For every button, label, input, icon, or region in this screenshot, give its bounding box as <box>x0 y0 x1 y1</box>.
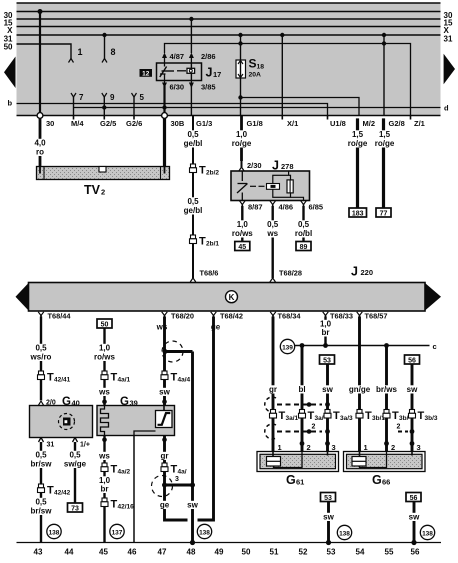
svg-text:2b/2: 2b/2 <box>206 170 219 177</box>
svg-text:ro/ws: ro/ws <box>94 353 115 362</box>
wire heater return to track 46 <box>133 436 135 543</box>
svg-text:3: 3 <box>417 443 421 452</box>
knock sensor G61 box <box>257 452 339 472</box>
svg-text:51: 51 <box>270 548 279 557</box>
svg-text:49: 49 <box>215 548 224 557</box>
connector T42/41 <box>38 371 45 380</box>
note circle 137 <box>110 524 124 538</box>
label track 45 <box>99 548 108 557</box>
wire ge riser to T68/42 <box>198 317 214 521</box>
label connector T4a/1 <box>111 372 131 384</box>
wire 0,5 ws/ro from T68/44 <box>40 317 42 372</box>
wire into G40 pin 2/0 <box>38 380 43 406</box>
label terminal 9 <box>110 93 115 102</box>
label track 47 <box>158 548 167 557</box>
shield drain wire sw vertical <box>191 352 194 543</box>
svg-text:TV: TV <box>84 183 101 197</box>
sender G40 box <box>30 406 93 438</box>
wire ws below G39 heater <box>102 436 107 464</box>
label bus 31 right <box>444 34 453 43</box>
arrow pin 2/30 <box>239 161 244 171</box>
connector T3a/3 <box>324 410 331 419</box>
svg-text:30B: 30B <box>171 119 185 128</box>
label wire ws below G39 <box>98 452 111 461</box>
label terminal G1/3 <box>196 119 212 128</box>
label connector T3b/1 <box>365 410 385 422</box>
label c <box>433 342 437 351</box>
svg-text:M/4: M/4 <box>71 119 84 128</box>
svg-text:2: 2 <box>307 443 311 452</box>
wire ge below T4a/3 with bend to T68/42 column <box>165 472 188 521</box>
wire relay feed line from 4/87 to Z/1 <box>165 44 411 116</box>
wire gr below G39 sensor <box>162 436 167 464</box>
label track 53 <box>327 548 336 557</box>
svg-text:T: T <box>392 410 399 422</box>
label wire bl <box>296 385 309 394</box>
svg-text:ro/bl: ro/bl <box>295 229 312 238</box>
connector T4a/4 <box>161 371 168 380</box>
svg-text:1/+: 1/+ <box>80 442 90 449</box>
wire 0,5 ge/bl lower <box>192 173 194 236</box>
svg-text:T: T <box>199 236 206 248</box>
svg-text:50: 50 <box>4 43 13 52</box>
svg-text:139: 139 <box>282 344 293 351</box>
svg-text:20A: 20A <box>249 72 262 79</box>
label track 48 <box>187 548 196 557</box>
svg-text:2: 2 <box>101 188 105 197</box>
shield node upper <box>163 349 193 354</box>
relay J17 coil link dash <box>177 70 186 72</box>
relay J278 inner wire to 6/85 <box>291 197 304 200</box>
label connector T2b/1 <box>199 236 219 248</box>
svg-text:61: 61 <box>296 478 304 487</box>
G39 sensor cell symbol <box>156 406 173 428</box>
label wire 0,5 ge/bl lower <box>182 197 205 215</box>
svg-text:T: T <box>171 464 178 476</box>
label fuse 8 <box>111 47 116 57</box>
label track 43 <box>34 548 43 557</box>
svg-text:138: 138 <box>49 529 60 536</box>
wire ws from T68/20 <box>163 317 166 372</box>
arrow terminal T68/34 <box>270 312 276 319</box>
fork terminal 7 <box>71 93 76 115</box>
svg-text:ro: ro <box>36 148 44 157</box>
label pin 3 G66 <box>417 443 421 452</box>
wire M/2 link from S18 wire <box>238 95 359 115</box>
G66 pin 3 inner stub <box>411 452 413 456</box>
label wire 1,0 ro/ge <box>230 130 253 148</box>
label wire gn/ge <box>348 385 371 394</box>
svg-text:52: 52 <box>299 548 308 557</box>
stub below X/1 <box>281 116 283 120</box>
svg-text:ro/ge: ro/ge <box>375 139 395 148</box>
wire gn/ge from T68/57 to T3b/1 <box>358 317 361 410</box>
arrow terminal T68/33 <box>323 312 329 319</box>
note circle 138 under 53 <box>337 525 351 539</box>
label wire 4,0 ro <box>33 139 47 157</box>
svg-text:2: 2 <box>391 443 395 452</box>
label pin 2 G61 <box>307 443 311 452</box>
svg-text:1,5: 1,5 <box>352 130 364 139</box>
arrow terminal T68/42 <box>211 312 217 319</box>
label connector T4a/4 <box>171 372 191 384</box>
fork terminal 5 <box>132 93 137 115</box>
svg-text:T68/33: T68/33 <box>330 312 353 321</box>
label wire 0,5 ro/bl <box>292 220 315 238</box>
svg-text:1,0: 1,0 <box>237 220 249 229</box>
label connector T3a/3 <box>333 410 353 422</box>
svg-text:br/sw: br/sw <box>31 507 53 516</box>
svg-text:X/1: X/1 <box>287 119 298 128</box>
svg-text:138: 138 <box>339 530 350 537</box>
label wire 0,5 ws <box>266 220 280 238</box>
svg-text:3a/1: 3a/1 <box>286 415 299 422</box>
label connector T2b/2 <box>199 165 219 177</box>
svg-text:G1/8: G1/8 <box>247 119 263 128</box>
label bus X right <box>444 26 450 35</box>
note circle 139 <box>280 339 294 353</box>
label T68/28 <box>279 269 302 278</box>
svg-text:T: T <box>199 165 206 177</box>
svg-text:17: 17 <box>213 70 221 79</box>
relay box J17 <box>157 63 202 81</box>
wire 30B to TV2 <box>163 118 166 167</box>
stub below M/4 <box>73 116 75 120</box>
arrow pin 6/85 <box>301 201 307 208</box>
label wire 1,5 ro/ge G2/8 <box>373 130 396 148</box>
lambda probe G39 box <box>97 406 175 436</box>
fuse S18 symbol <box>236 60 246 78</box>
wire 0,5 ge/bl upper from G1/3 <box>192 116 194 165</box>
label wire ws below T68/20 <box>156 323 169 332</box>
label pin 1 G66 <box>364 443 368 452</box>
label track 44 <box>65 548 74 557</box>
svg-text:T: T <box>171 372 178 384</box>
svg-text:1,0: 1,0 <box>99 344 111 353</box>
label track 50 <box>242 548 251 557</box>
connection box 56 upper <box>405 355 420 364</box>
wire sw from box 53 to track 53 <box>326 502 331 546</box>
wire gn/ge to G66 pin 1 <box>358 418 361 452</box>
connector T4a/2 <box>101 463 108 472</box>
svg-text:br: br <box>322 328 330 337</box>
connector T3a/1 <box>270 410 277 419</box>
svg-text:T: T <box>279 410 286 422</box>
shield screen circle lower <box>152 476 173 497</box>
arrow pin 8/87 <box>240 201 246 208</box>
label wire sw left <box>321 385 334 394</box>
wire 1,5 ro/ge from M/2 to ground 183 <box>356 118 359 208</box>
svg-text:M/2: M/2 <box>363 119 376 128</box>
label connector T42/42 <box>47 485 71 497</box>
svg-text:Z/1: Z/1 <box>414 119 425 128</box>
svg-text:4,0: 4,0 <box>34 139 46 148</box>
svg-text:G: G <box>286 473 296 487</box>
label wire gr <box>267 385 280 394</box>
bus bar 50 with corner down to fuse 1 <box>17 44 72 59</box>
connection box 50 <box>97 319 112 328</box>
svg-text:T: T <box>418 410 425 422</box>
svg-text:56: 56 <box>411 548 420 557</box>
connector T42/42 <box>38 484 45 493</box>
label bus 30 left <box>4 11 13 20</box>
svg-text:89: 89 <box>300 244 308 251</box>
label connector T4a/2 <box>111 464 131 476</box>
label G66 <box>372 473 390 487</box>
svg-text:ge/bl: ge/bl <box>184 206 203 215</box>
svg-text:sw/ge: sw/ge <box>64 460 87 469</box>
wire fuse 8 from bus 31 <box>102 33 106 59</box>
G39 heater return inner wire <box>134 431 156 436</box>
G61 pin 3 inner stub <box>327 452 329 456</box>
label pin 1/+ <box>80 442 90 449</box>
ground box 77 <box>376 208 391 217</box>
label S18 20A <box>249 57 265 79</box>
label wire 1,0 br <box>318 320 332 338</box>
svg-text:4/87: 4/87 <box>170 52 185 61</box>
svg-text:3: 3 <box>332 443 336 452</box>
svg-text:0,5: 0,5 <box>187 197 199 206</box>
shield screen arc upper pair a <box>265 397 276 412</box>
bus bar 31 <box>17 34 441 36</box>
connector T3a/2 <box>299 410 306 419</box>
svg-text:T68/57: T68/57 <box>365 312 388 321</box>
svg-text:1,5: 1,5 <box>379 130 391 139</box>
SECTION: top supply band <box>4 3 455 128</box>
label wire 1,0 ro/ws <box>231 220 254 238</box>
svg-text:bl: bl <box>298 385 305 394</box>
bus bar X <box>17 26 441 28</box>
sender G40 inner symbol <box>59 414 75 430</box>
label track 46 <box>128 548 137 557</box>
svg-text:50: 50 <box>101 321 109 328</box>
connection box 53 lower <box>321 493 336 502</box>
label pin 31 <box>47 442 55 449</box>
label pin 4/87 <box>170 52 185 61</box>
wire 1,0 ro/ge from G1/8 to J278 <box>240 116 243 162</box>
label wire 0,5 br/sw upper <box>30 451 53 469</box>
svg-text:G2/5: G2/5 <box>100 119 116 128</box>
label pin 6/85 <box>309 203 324 212</box>
svg-text:46: 46 <box>128 548 137 557</box>
svg-text:2/86: 2/86 <box>201 52 216 61</box>
relay J17 contact <box>160 63 174 81</box>
svg-text:c: c <box>433 342 437 351</box>
svg-text:3b/: 3b/ <box>399 415 409 422</box>
svg-text:S: S <box>249 57 257 71</box>
label wire 0,5 br/sw lower <box>30 498 53 516</box>
label T68/34 <box>278 312 302 321</box>
label pin 2/30 <box>247 161 262 170</box>
wire 1,5 ro/ge from G2/8 to ground 77 <box>382 118 385 208</box>
code box 12 <box>140 69 153 77</box>
label G40 <box>62 396 80 408</box>
wire 0,5 ws to T68/28 <box>270 206 276 282</box>
label wire sw ground right <box>408 513 421 522</box>
label wire 0,5 sw/ge <box>64 451 87 469</box>
label T68/42 <box>220 312 243 321</box>
svg-text:2: 2 <box>312 424 316 431</box>
label track 52 <box>299 548 308 557</box>
fuse tap 1 fork <box>69 59 74 63</box>
wire 0,5 br/sw lower to track 43 <box>40 493 42 543</box>
d rail <box>74 107 441 109</box>
svg-text:0,5: 0,5 <box>35 451 47 460</box>
ground box 183 <box>349 208 367 217</box>
label pin 2/0 <box>46 400 56 407</box>
svg-text:53: 53 <box>327 548 336 557</box>
arrow terminal T68/57 <box>357 312 363 319</box>
svg-text:8: 8 <box>111 47 116 57</box>
label bus 50 left <box>4 43 13 52</box>
label G39 <box>120 396 138 408</box>
svg-text:T: T <box>111 464 118 476</box>
svg-text:b: b <box>8 99 13 108</box>
svg-text:G2/8: G2/8 <box>389 119 405 128</box>
SECTION: knock sensors <box>257 317 438 546</box>
svg-text:d: d <box>444 104 449 113</box>
svg-text:3: 3 <box>175 476 179 483</box>
label wire sw ground left <box>322 513 335 522</box>
svg-text:4a/4: 4a/4 <box>178 377 191 384</box>
svg-text:73: 73 <box>71 505 79 512</box>
label T68/57 <box>365 312 388 321</box>
svg-text:0,5: 0,5 <box>35 498 47 507</box>
svg-text:4a/: 4a/ <box>178 469 187 476</box>
label pin 2 G66 <box>391 443 395 452</box>
SECTION: lower left G40 G39 <box>30 317 214 546</box>
svg-text:T68/28: T68/28 <box>279 269 302 278</box>
svg-text:3a/3: 3a/3 <box>340 415 353 422</box>
svg-text:T68/20: T68/20 <box>171 312 194 321</box>
svg-text:278: 278 <box>281 162 294 171</box>
fork pin 31 of G40 <box>39 438 44 443</box>
fork terminal 9 <box>102 93 107 115</box>
svg-text:ws: ws <box>266 229 278 238</box>
label bus X left <box>7 26 13 35</box>
svg-text:T: T <box>47 485 54 497</box>
svg-text:T68/34: T68/34 <box>278 312 302 321</box>
stub below Z/1 <box>410 116 412 120</box>
label wire 1,0 br <box>97 476 111 494</box>
label wire sw upper <box>158 388 171 397</box>
arrow pin 6/30 <box>162 81 167 89</box>
note circle 138 left <box>47 524 61 538</box>
SECTION: middle components <box>33 116 396 283</box>
connector T2b/1 <box>190 235 197 244</box>
bus bar top <box>17 2 441 4</box>
svg-text:53: 53 <box>324 495 332 502</box>
svg-text:138: 138 <box>199 529 210 536</box>
svg-text:gr: gr <box>269 385 277 394</box>
svg-text:3/85: 3/85 <box>201 83 216 92</box>
label wire 0,5 ge/bl upper <box>182 130 205 148</box>
svg-text:6/85: 6/85 <box>309 203 324 212</box>
svg-text:0,5: 0,5 <box>187 130 199 139</box>
svg-text:4/86: 4/86 <box>279 203 294 212</box>
svg-text:T: T <box>111 499 118 511</box>
svg-text:53: 53 <box>323 357 331 364</box>
relay box J278 <box>231 171 310 201</box>
svg-text:4a/2: 4a/2 <box>118 469 131 476</box>
G61 pin 2 inner wire <box>274 452 303 468</box>
shield dashed link upper a <box>277 402 330 407</box>
wire gr to G61 pin 1 <box>272 418 275 452</box>
label terminal 30B <box>171 119 185 128</box>
label wire ws upper left <box>98 388 111 397</box>
svg-text:48: 48 <box>187 548 196 557</box>
svg-text:31: 31 <box>444 34 453 43</box>
svg-text:gn/ge: gn/ge <box>349 385 371 394</box>
wire sw from box 53 to T3a/3 <box>326 364 329 410</box>
label terminal G2/8 <box>389 119 405 128</box>
G66 pin 2 inner wire <box>360 452 387 468</box>
continuation arrow right (top band) <box>444 54 455 84</box>
relay J278 contact <box>237 171 248 201</box>
svg-text:1: 1 <box>364 443 368 452</box>
node on feed line at S18 wire <box>238 41 242 45</box>
label J278 <box>272 159 294 173</box>
stub below G2/5 <box>103 116 105 120</box>
SECTION: bottom rail <box>17 543 442 557</box>
label track 51 <box>270 548 279 557</box>
node on feed line at G2/8 wire <box>382 41 386 45</box>
wire 0,5 br/sw upper <box>40 442 42 484</box>
label fuse 1 <box>78 47 83 57</box>
wire c shield bus <box>295 345 430 347</box>
wire sw to G61 pin 3 <box>325 418 330 452</box>
wire fuse S18 from bus 31 to G1/8 <box>238 33 242 115</box>
wire to T68/6 <box>190 244 196 283</box>
svg-text:br/sw: br/sw <box>31 460 53 469</box>
svg-text:7: 7 <box>79 93 84 102</box>
label wire sw lower <box>186 501 199 510</box>
relay J17 coil <box>187 63 195 81</box>
svg-text:1: 1 <box>278 443 282 452</box>
svg-text:9: 9 <box>110 93 115 102</box>
svg-text:45: 45 <box>99 548 108 557</box>
arrow pin 2/86 <box>189 53 194 64</box>
arrow pin 4/86 <box>270 201 276 208</box>
svg-text:3a/: 3a/ <box>315 415 324 422</box>
wire ws into G39 heater <box>102 380 107 406</box>
stub below U1/8 <box>327 116 329 120</box>
wire 3/85 down to terminal G1/3 <box>190 86 192 115</box>
b rail <box>17 104 328 116</box>
label terminal G1/8 <box>247 119 263 128</box>
control unit J220 band <box>29 283 426 312</box>
svg-text:43: 43 <box>34 548 43 557</box>
bus bar 30 <box>17 11 441 13</box>
label connector T42/16 <box>111 499 135 511</box>
svg-text:1,0: 1,0 <box>236 130 248 139</box>
svg-text:U1/8: U1/8 <box>330 119 346 128</box>
label J220 <box>351 265 373 279</box>
svg-text:66: 66 <box>382 478 390 487</box>
svg-text:220: 220 <box>361 268 374 277</box>
label wire 0,5 ws/ro <box>30 344 53 362</box>
label wire 1,0 ro/ws <box>93 344 116 362</box>
continuation arrow right (J220) <box>425 283 441 311</box>
stub below G2/6 <box>133 116 135 120</box>
connector T3b/2 <box>383 410 390 419</box>
arrow terminal T68/44 <box>38 312 44 319</box>
wire gr from T68/34 to T3a/1 <box>272 317 275 410</box>
label terminal M/2 <box>363 119 376 128</box>
svg-text:sw: sw <box>159 388 170 397</box>
svg-text:12: 12 <box>142 70 150 77</box>
note circle 138 under 56 <box>420 525 434 539</box>
